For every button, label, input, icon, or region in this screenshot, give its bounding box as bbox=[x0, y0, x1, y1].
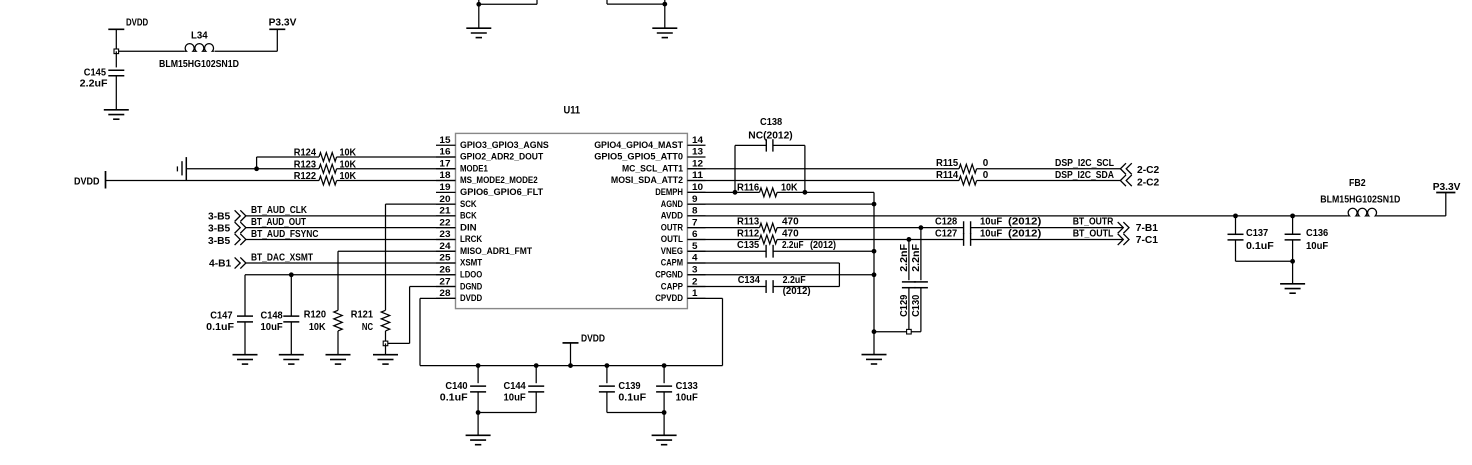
svg-text:BT_OUTL: BT_OUTL bbox=[1073, 229, 1114, 240]
svg-text:2-C2: 2-C2 bbox=[1137, 177, 1160, 188]
svg-text:BT_AUD_FSYNC: BT_AUD_FSYNC bbox=[251, 229, 319, 240]
svg-text:R123: R123 bbox=[294, 159, 317, 170]
capacitor C134 bbox=[738, 275, 811, 297]
svg-text:18: 18 bbox=[439, 170, 451, 181]
svg-text:7-B1: 7-B1 bbox=[1136, 223, 1159, 234]
svg-text:3-B5: 3-B5 bbox=[208, 236, 231, 247]
capacitor C130 bbox=[911, 228, 928, 332]
off-page connector 3-B5 (BT_AUD_OUT) bbox=[208, 222, 246, 235]
node junction C137 bbox=[1233, 213, 1238, 218]
ground (R121) bbox=[373, 343, 398, 364]
power symbol P3.3V (right) bbox=[1433, 182, 1461, 216]
svg-text:28: 28 bbox=[439, 288, 451, 299]
power symbol DVDD (top left) bbox=[108, 18, 148, 52]
svg-text:470: 470 bbox=[782, 217, 799, 228]
svg-text:R116: R116 bbox=[737, 183, 760, 194]
node junction DVDD stem bbox=[568, 363, 573, 368]
off-page connector 2-C2 (SDA) bbox=[1120, 175, 1159, 188]
svg-text:R122: R122 bbox=[294, 171, 317, 182]
wire top-right stub bbox=[607, 0, 665, 28]
svg-text:L34: L34 bbox=[191, 31, 208, 42]
wire C140-C144 bottom bbox=[478, 412, 536, 414]
svg-text:DVDD: DVDD bbox=[126, 18, 148, 29]
wire L34 to P3.3V bbox=[215, 50, 278, 52]
svg-text:7-C1: 7-C1 bbox=[1136, 235, 1159, 246]
svg-text:DSP_I2C_SCL: DSP_I2C_SCL bbox=[1055, 158, 1114, 169]
svg-text:U11: U11 bbox=[564, 105, 581, 117]
capacitor C127 bbox=[935, 229, 1041, 246]
svg-text:6: 6 bbox=[692, 229, 698, 240]
svg-text:C135: C135 bbox=[737, 240, 760, 251]
svg-text:10uF: 10uF bbox=[980, 217, 1002, 228]
svg-text:GPIO6_GPIO6_FLT: GPIO6_GPIO6_FLT bbox=[460, 187, 544, 197]
svg-text:C130: C130 bbox=[911, 294, 922, 317]
svg-text:R121: R121 bbox=[351, 310, 374, 321]
capacitor C137 bbox=[1228, 216, 1274, 261]
node junction R123/R124 bbox=[254, 166, 259, 171]
node top-left junction bbox=[476, 2, 481, 7]
node junction C129 bottom bbox=[907, 329, 912, 334]
svg-text:SCK: SCK bbox=[460, 199, 477, 209]
wire C137-C136 bottom bbox=[1236, 260, 1293, 262]
ground (C136) bbox=[1280, 261, 1305, 293]
svg-text:C129: C129 bbox=[899, 294, 910, 317]
wire DVDD row pin18 bbox=[106, 180, 456, 182]
svg-text:16: 16 bbox=[439, 147, 450, 158]
svg-text:GPIO5_GPIO5_ATT0: GPIO5_GPIO5_ATT0 bbox=[594, 152, 683, 162]
svg-text:8: 8 bbox=[692, 206, 698, 217]
svg-text:10uF: 10uF bbox=[261, 322, 283, 333]
wire DVDD pin28 to rail bbox=[420, 298, 456, 365]
wire jog to pin16 row bbox=[257, 157, 456, 169]
svg-text:10K: 10K bbox=[340, 171, 357, 182]
net port DVDD (left) bbox=[74, 171, 106, 189]
wire MISO pin24 down bbox=[338, 251, 456, 310]
svg-text:C136: C136 bbox=[1306, 228, 1329, 239]
svg-text:4-B1: 4-B1 bbox=[209, 259, 232, 270]
svg-text:BT_AUD_OUT: BT_AUD_OUT bbox=[251, 217, 307, 228]
wire R121 to DGND pin27 bbox=[386, 287, 456, 344]
svg-text:CAPP: CAPP bbox=[661, 281, 683, 291]
wire AGND bottom bbox=[874, 331, 921, 333]
svg-text:3: 3 bbox=[692, 264, 698, 275]
ground (C145) bbox=[104, 110, 129, 119]
svg-text:2: 2 bbox=[692, 276, 698, 287]
svg-text:10: 10 bbox=[692, 182, 703, 193]
svg-text:4: 4 bbox=[692, 253, 698, 264]
svg-text:R113: R113 bbox=[737, 217, 760, 228]
wire CAPP pin2 bbox=[687, 286, 839, 288]
svg-text:5: 5 bbox=[692, 241, 698, 252]
svg-text:C138: C138 bbox=[760, 117, 783, 128]
capacitor C128 bbox=[935, 217, 1041, 234]
svg-text:(2012): (2012) bbox=[1008, 217, 1041, 228]
node junction C133 bottom bbox=[662, 410, 667, 415]
ground (AGND trunk) bbox=[862, 332, 887, 364]
svg-text:21: 21 bbox=[439, 206, 451, 217]
wire rail to CPVDD pin1 bbox=[687, 298, 722, 365]
net label BT_OUTR bbox=[1073, 217, 1114, 228]
svg-text:MOSI_SDA_ATT2: MOSI_SDA_ATT2 bbox=[611, 175, 683, 185]
capacitor C133 bbox=[656, 363, 698, 412]
svg-text:25: 25 bbox=[439, 253, 451, 264]
svg-text:17: 17 bbox=[439, 158, 450, 169]
svg-text:(2012): (2012) bbox=[1008, 229, 1041, 240]
node junction C138 left bbox=[733, 190, 738, 195]
svg-text:10K: 10K bbox=[781, 183, 798, 194]
ground (C140/C144) bbox=[466, 413, 491, 445]
capacitor C140 bbox=[440, 363, 486, 412]
ground (R120) bbox=[326, 355, 351, 364]
node junction C130/OUTR bbox=[919, 225, 924, 230]
svg-text:20: 20 bbox=[439, 194, 450, 205]
svg-text:2.2nF: 2.2nF bbox=[911, 244, 922, 272]
wire DVDD to L34 bbox=[116, 50, 185, 52]
off-page connector 2-C2 (SCL) bbox=[1120, 163, 1159, 176]
ground (top left) bbox=[466, 28, 491, 37]
resistor R116 bbox=[737, 183, 798, 197]
svg-text:13: 13 bbox=[692, 147, 703, 158]
svg-text:C134: C134 bbox=[738, 275, 761, 286]
svg-text:MODE1: MODE1 bbox=[460, 163, 488, 173]
svg-text:2.2uF: 2.2uF bbox=[80, 78, 108, 89]
node top-right junction bbox=[662, 2, 667, 7]
svg-text:DVDD: DVDD bbox=[581, 334, 605, 345]
svg-text:BCK: BCK bbox=[460, 211, 477, 221]
wire AGND pin9 bbox=[687, 203, 874, 205]
node junction CPGND/AGND bbox=[872, 272, 877, 277]
resistor R112 bbox=[737, 229, 799, 244]
svg-text:7: 7 bbox=[692, 217, 698, 228]
node junction C136 bbox=[1290, 213, 1295, 218]
wire BT_DAC_XSMT bbox=[246, 252, 456, 263]
resistor R115 bbox=[936, 158, 989, 173]
svg-text:GPIO3_GPIO3_AGNS: GPIO3_GPIO3_AGNS bbox=[460, 140, 549, 150]
wire DEMPH pin10 bbox=[687, 191, 874, 193]
svg-text:3-B5: 3-B5 bbox=[208, 211, 231, 222]
svg-text:24: 24 bbox=[439, 241, 451, 252]
svg-text:C144: C144 bbox=[504, 381, 527, 392]
svg-text:DVDD: DVDD bbox=[460, 293, 482, 303]
capacitor C145 bbox=[80, 51, 125, 110]
svg-text:C137: C137 bbox=[1246, 228, 1269, 239]
svg-text:9: 9 bbox=[692, 194, 698, 205]
svg-text:27: 27 bbox=[439, 276, 450, 287]
svg-text:19: 19 bbox=[439, 182, 450, 193]
svg-text:(2012): (2012) bbox=[810, 240, 836, 251]
node junction C129/OUTL bbox=[907, 237, 912, 242]
resistor R113 bbox=[737, 217, 799, 232]
capacitor C136 bbox=[1285, 216, 1329, 261]
svg-text:15: 15 bbox=[439, 135, 451, 146]
node junction C138 right bbox=[803, 190, 808, 195]
ground (C148) bbox=[279, 355, 304, 364]
resistor R121 bbox=[351, 310, 390, 344]
svg-text:DIN: DIN bbox=[460, 222, 477, 232]
IC U11 right pins 1-14 with labels bbox=[594, 135, 705, 303]
ground (top right) bbox=[652, 28, 677, 37]
svg-text:22: 22 bbox=[439, 217, 450, 228]
wire BT_AUD_OUT bbox=[246, 217, 456, 228]
inductor L34 bbox=[159, 31, 239, 70]
wire pin17 row bbox=[186, 168, 455, 170]
IC U11 left pins 15-28 with labels bbox=[436, 135, 549, 303]
svg-text:LRCK: LRCK bbox=[460, 234, 483, 244]
svg-text:VNEG: VNEG bbox=[661, 246, 683, 256]
svg-text:AGND: AGND bbox=[661, 199, 683, 209]
svg-text:R115: R115 bbox=[936, 158, 959, 169]
node junction C140 bottom bbox=[476, 410, 481, 415]
svg-text:OUTR: OUTR bbox=[661, 222, 684, 232]
net label DSP_I2C_SCL bbox=[1055, 158, 1114, 169]
svg-text:NC(2012): NC(2012) bbox=[748, 131, 792, 142]
svg-text:0.1uF: 0.1uF bbox=[206, 322, 234, 333]
wire OUTR pin7 bbox=[687, 227, 1123, 229]
wire SCK pin20 down bbox=[386, 204, 456, 310]
node junction AGND bbox=[872, 202, 877, 207]
svg-text:FB2: FB2 bbox=[1349, 178, 1366, 189]
power symbol P3.3V (top left) bbox=[269, 18, 297, 52]
svg-text:MISO_ADR1_FMT: MISO_ADR1_FMT bbox=[460, 246, 532, 256]
off-page connector 3-B5 (BT_AUD_FSYNC) bbox=[208, 234, 246, 247]
node junction R121 bottom bbox=[383, 341, 388, 346]
off-page connector 4-B1 (BT_DAC_XSMT) bbox=[209, 257, 246, 269]
ground (C147) bbox=[233, 355, 258, 364]
capacitor C147 bbox=[206, 275, 253, 355]
svg-text:R112: R112 bbox=[737, 229, 760, 240]
svg-text:10K: 10K bbox=[340, 159, 357, 170]
svg-text:2.2uF: 2.2uF bbox=[783, 275, 806, 286]
svg-text:0: 0 bbox=[983, 158, 989, 169]
node junction C148/LDOO bbox=[289, 272, 294, 277]
off-page connector 3-B5 (BT_AUD_CLK) bbox=[208, 210, 246, 222]
wire BT_AUD_FSYNC bbox=[246, 229, 456, 240]
wire AVDD pin8 to FB2 bbox=[687, 215, 1445, 217]
svg-text:R114: R114 bbox=[936, 170, 959, 181]
power symbol DVDD (bottom) bbox=[563, 334, 606, 366]
svg-text:C133: C133 bbox=[676, 381, 699, 392]
svg-text:1: 1 bbox=[692, 288, 698, 299]
node junction VNEG/AGND bbox=[872, 249, 877, 254]
svg-text:10K: 10K bbox=[340, 148, 357, 159]
svg-text:C139: C139 bbox=[618, 381, 641, 392]
svg-text:C148: C148 bbox=[261, 311, 284, 322]
svg-text:2.2uF: 2.2uF bbox=[782, 240, 804, 251]
capacitor C129 bbox=[899, 239, 916, 331]
svg-text:DGND: DGND bbox=[460, 281, 482, 291]
off-page connector 7-B1 bbox=[1118, 222, 1159, 234]
svg-text:26: 26 bbox=[439, 264, 450, 275]
svg-text:10uF: 10uF bbox=[1306, 241, 1328, 252]
svg-text:R124: R124 bbox=[294, 148, 317, 159]
svg-text:11: 11 bbox=[692, 170, 704, 181]
svg-text:12: 12 bbox=[692, 158, 703, 169]
svg-text:3-B5: 3-B5 bbox=[208, 224, 231, 235]
svg-text:DVDD: DVDD bbox=[74, 177, 100, 188]
capacitor C148 bbox=[261, 275, 300, 355]
inductor FB2 bbox=[1320, 178, 1400, 216]
svg-text:0.1uF: 0.1uF bbox=[618, 393, 646, 404]
svg-text:DSP_I2C_SDA: DSP_I2C_SDA bbox=[1055, 170, 1115, 181]
svg-text:P3.3V: P3.3V bbox=[269, 18, 297, 29]
power flag (sideways ground DVDD) bbox=[177, 157, 186, 180]
svg-text:(2012): (2012) bbox=[783, 286, 811, 297]
op-amp U1 box (IC U11 outline) bbox=[456, 105, 688, 309]
capacitor C138 bbox=[735, 117, 805, 193]
svg-text:BLM15HG102SN1D: BLM15HG102SN1D bbox=[159, 59, 239, 70]
svg-text:BT_DAC_XSMT: BT_DAC_XSMT bbox=[251, 252, 314, 263]
wire CPGND pin3 bbox=[687, 274, 874, 276]
svg-text:NC: NC bbox=[362, 322, 374, 333]
wire DVDD bottom rail bbox=[420, 365, 723, 367]
net label DSP_I2C_SDA bbox=[1055, 170, 1115, 181]
node junction trunk bottom bbox=[872, 329, 877, 334]
wire C139-C133 bottom bbox=[607, 412, 664, 414]
svg-text:BT_AUD_CLK: BT_AUD_CLK bbox=[251, 205, 308, 216]
svg-text:10K: 10K bbox=[309, 322, 326, 333]
capacitor C139 bbox=[599, 363, 646, 412]
ground (C139/C133) bbox=[652, 413, 677, 445]
wire MC_SCL pin12 bbox=[687, 168, 1120, 170]
svg-text:LDOO: LDOO bbox=[460, 269, 482, 279]
net label BT_OUTL bbox=[1073, 229, 1114, 240]
resistor R122 bbox=[294, 171, 357, 185]
wire BT_AUD_CLK bbox=[246, 205, 456, 216]
svg-text:2.2nF: 2.2nF bbox=[899, 244, 910, 272]
svg-text:0: 0 bbox=[983, 170, 989, 181]
svg-text:BT_OUTR: BT_OUTR bbox=[1073, 217, 1114, 228]
svg-text:R120: R120 bbox=[304, 310, 327, 321]
resistor R123 bbox=[294, 159, 357, 173]
svg-text:0.1uF: 0.1uF bbox=[1246, 241, 1274, 252]
svg-text:23: 23 bbox=[439, 229, 450, 240]
svg-text:10uF: 10uF bbox=[676, 393, 698, 404]
wire AGND trunk bbox=[873, 192, 875, 331]
svg-text:CPVDD: CPVDD bbox=[655, 293, 683, 303]
wire VNEG pin5 bbox=[687, 250, 874, 252]
capacitor C135 bbox=[737, 240, 836, 258]
resistor R124 bbox=[294, 148, 357, 162]
off-page connector 7-C1 bbox=[1118, 234, 1159, 246]
svg-text:MC_SCL_ATT1: MC_SCL_ATT1 bbox=[622, 163, 683, 173]
svg-text:CAPM: CAPM bbox=[661, 258, 683, 268]
capacitor C144 bbox=[504, 363, 545, 412]
svg-text:GPIO4_GPIO4_MAST: GPIO4_GPIO4_MAST bbox=[594, 140, 683, 150]
svg-text:10uF: 10uF bbox=[504, 393, 526, 404]
svg-text:BLM15HG102SN1D: BLM15HG102SN1D bbox=[1320, 195, 1400, 206]
resistor R120 bbox=[304, 310, 342, 355]
svg-text:2-C2: 2-C2 bbox=[1137, 165, 1160, 176]
svg-text:C128: C128 bbox=[935, 217, 958, 228]
wire top-left stub bbox=[479, 0, 537, 28]
resistor R114 bbox=[936, 170, 989, 185]
svg-text:0.1uF: 0.1uF bbox=[440, 393, 468, 404]
node junction C136 bottom bbox=[1290, 259, 1295, 264]
svg-text:OUTL: OUTL bbox=[661, 234, 684, 244]
svg-text:XSMT: XSMT bbox=[460, 258, 483, 268]
svg-text:MS_MODE2_MODE2: MS_MODE2_MODE2 bbox=[460, 175, 538, 185]
svg-text:C147: C147 bbox=[210, 311, 233, 322]
wire CAPM pin4 bbox=[687, 263, 839, 287]
wire LDOO pin26 bbox=[245, 274, 456, 276]
svg-text:GPIO2_ADR2_DOUT: GPIO2_ADR2_DOUT bbox=[460, 152, 544, 162]
svg-text:470: 470 bbox=[782, 229, 799, 240]
svg-text:DEMPH: DEMPH bbox=[655, 187, 683, 197]
svg-text:14: 14 bbox=[692, 135, 704, 146]
svg-text:C140: C140 bbox=[445, 381, 468, 392]
wire OUTL pin6 bbox=[687, 238, 1123, 240]
svg-text:CPGND: CPGND bbox=[655, 269, 683, 279]
svg-text:C127: C127 bbox=[935, 229, 958, 240]
svg-text:C145: C145 bbox=[84, 68, 107, 79]
junction node DVDD/C145 bbox=[114, 49, 119, 54]
svg-text:AVDD: AVDD bbox=[661, 211, 684, 221]
svg-text:10uF: 10uF bbox=[980, 229, 1002, 240]
wire MOSI_SDA pin11 bbox=[687, 180, 1120, 182]
svg-text:P3.3V: P3.3V bbox=[1433, 182, 1461, 193]
